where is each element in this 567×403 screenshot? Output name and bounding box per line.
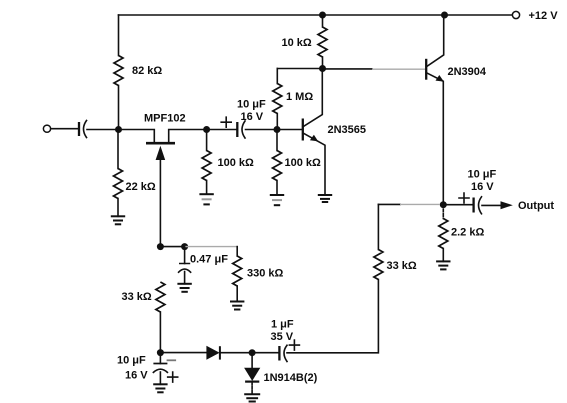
wire node down to 100k right <box>276 130 278 151</box>
svg-text:1 μF: 1 μF <box>271 319 294 331</box>
svg-text:22 kΩ: 22 kΩ <box>126 181 156 193</box>
svg-text:Output: Output <box>518 200 554 212</box>
wire bottom to diode <box>160 352 207 354</box>
wire 1M top <box>277 68 322 70</box>
svg-text:MPF102: MPF102 <box>144 113 186 125</box>
resistor R 22k <box>114 169 123 199</box>
resistor R 1M <box>273 84 282 114</box>
wire 82k to gate node <box>118 86 120 130</box>
node top-10k <box>319 12 326 19</box>
wire feedback horizontal <box>378 203 400 205</box>
wire top rail <box>119 14 517 16</box>
svg-text:35 V: 35 V <box>271 331 294 343</box>
svg-text:0.47 μF: 0.47 μF <box>190 254 228 266</box>
svg-text:1N914B(2): 1N914B(2) <box>264 372 318 384</box>
wire 330k to ground <box>236 286 238 302</box>
node output emitter <box>440 201 447 208</box>
node top-2N3904 <box>441 12 448 19</box>
wire gate node to 22k <box>117 130 119 169</box>
node bottom left <box>157 349 164 356</box>
svg-text:33 kΩ: 33 kΩ <box>122 291 152 303</box>
ground below diode D2 <box>244 394 260 401</box>
resistor R 10k <box>318 27 327 57</box>
svg-text:10 μF: 10 μF <box>237 99 266 111</box>
node source-cap <box>203 126 210 133</box>
wire node to 2.2k <box>442 205 444 219</box>
ground below 100k right <box>270 195 284 205</box>
wire 33k left bottom <box>159 312 161 353</box>
resistor R 100k left <box>202 151 211 181</box>
resistor R 330k <box>233 256 242 286</box>
terminal input <box>43 125 50 132</box>
svg-text:33 kΩ: 33 kΩ <box>387 260 417 272</box>
resistor R 100k right <box>273 151 282 181</box>
wire gate node to 0.47 node <box>160 246 184 248</box>
node feedback gate <box>157 243 164 250</box>
wire base 2N3904 <box>323 68 373 70</box>
wire 33k right vertical <box>377 204 379 249</box>
wire 100k left to ground <box>206 181 208 195</box>
ground below 22k <box>111 216 125 224</box>
node 10k bottom <box>319 65 326 72</box>
resistor R 33k right <box>374 250 383 280</box>
wire input to cap <box>51 128 79 130</box>
svg-text:100 kΩ: 100 kΩ <box>218 157 255 169</box>
node 0.47uF <box>181 243 188 250</box>
svg-text:+12 V: +12 V <box>529 10 559 22</box>
ground below 100k left <box>199 194 213 204</box>
resistor R 2.2k <box>439 219 448 249</box>
ground below 2.2k <box>436 261 450 269</box>
svg-text:16 V: 16 V <box>125 370 148 382</box>
wire 10k top <box>322 15 324 27</box>
svg-text:10 kΩ: 10 kΩ <box>282 37 312 49</box>
wire diode to node <box>220 352 252 354</box>
svg-text:330 kΩ: 330 kΩ <box>247 268 284 280</box>
ground 2N3565 emitter <box>318 195 332 202</box>
svg-text:10 μF: 10 μF <box>117 355 146 367</box>
svg-text:1 MΩ: 1 MΩ <box>286 91 313 103</box>
svg-text:16 V: 16 V <box>471 181 494 193</box>
svg-text:2N3904: 2N3904 <box>448 66 487 78</box>
diode D1 1N914 <box>206 346 219 360</box>
wire left branch upper <box>118 15 120 56</box>
terminal +12V <box>512 11 519 18</box>
node base-2N3565 <box>274 126 281 133</box>
wire 2.2k to ground <box>442 249 444 262</box>
svg-text:2N3565: 2N3565 <box>328 124 367 136</box>
svg-text:82 kΩ: 82 kΩ <box>132 65 162 77</box>
ground below 330k <box>230 302 244 310</box>
resistor R 33k left <box>156 282 165 312</box>
node diode <box>249 349 256 356</box>
node gate <box>115 126 122 133</box>
resistor R 82k <box>114 56 123 86</box>
wire cap to gate node <box>87 129 119 131</box>
wire 10k bottom <box>322 57 324 69</box>
svg-text:100 kΩ: 100 kΩ <box>285 157 322 169</box>
wire 100k right to ground <box>276 181 278 196</box>
wire 0.47 node to 330k <box>185 246 238 248</box>
wire output arrow <box>482 204 501 206</box>
svg-text:10 μF: 10 μF <box>468 169 497 181</box>
ground below 0.47uF <box>177 284 191 292</box>
ground below 10uF bottom <box>153 384 167 392</box>
capacitor C-in (input coupling) <box>78 122 80 136</box>
svg-text:2.2 kΩ: 2.2 kΩ <box>451 227 484 239</box>
wire 33k right bottom <box>287 280 378 353</box>
wire 1M bottom to node <box>276 114 278 130</box>
wire 22k to ground <box>117 199 119 217</box>
wire node to 100k left <box>206 130 208 151</box>
